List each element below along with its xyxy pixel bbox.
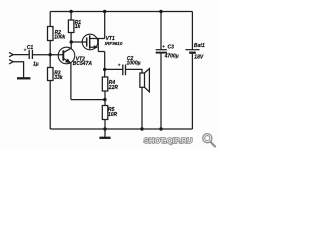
svg-text:18V: 18V: [194, 55, 204, 61]
node bottom rail C3: [159, 127, 162, 130]
wire C3 column top: [160, 12, 162, 50]
node gate R1 collector: [70, 40, 73, 43]
wire emitter feedback: [71, 99, 105, 101]
battery Bat1: [191, 12, 193, 50]
ground input: [17, 77, 30, 79]
wire gate lead: [71, 41, 87, 43]
arrow VT1 substrate: [94, 45, 98, 49]
capacitor C3: [156, 49, 167, 51]
wire input to C1: [13, 54, 29, 56]
svg-text:Bat1: Bat1: [194, 43, 205, 49]
svg-text:C1: C1: [27, 45, 34, 51]
node R4 R5 emitter: [103, 98, 106, 101]
wire R2 column top: [49, 12, 51, 27]
resistor R3: [48, 68, 54, 81]
svg-text:10R: 10R: [108, 112, 118, 118]
svg-text:SHOT.QIP.RU: SHOT.QIP.RU: [144, 136, 193, 145]
node output: [103, 68, 106, 71]
wire C3 bottom: [160, 54, 162, 130]
wire input2 to ground: [13, 62, 23, 78]
wire output node to C2: [105, 68, 123, 70]
svg-text:22R: 22R: [108, 85, 119, 91]
svg-text:1k: 1k: [75, 24, 81, 30]
svg-text:C3: C3: [168, 44, 175, 50]
wire VT1 drain to output node: [104, 52, 106, 78]
wire R1 bottom to node: [70, 33, 72, 43]
watermark shot.qip.ru: [144, 136, 193, 145]
wire R2 bottom to base node: [49, 41, 51, 68]
svg-text:4700µ: 4700µ: [164, 54, 179, 60]
resistor R5: [102, 106, 108, 120]
wire R5 bottom: [104, 120, 106, 130]
wire bottom rail: [50, 128, 192, 130]
wire speaker to bottom rail: [141, 87, 143, 129]
node top rail VT1 source: [103, 10, 106, 13]
svg-text:+: +: [162, 44, 165, 49]
svg-text:+: +: [24, 48, 27, 53]
svg-text:BC547A: BC547A: [73, 61, 93, 67]
wire R3 bottom to bottom rail: [49, 81, 51, 130]
node bottom rail speaker: [140, 127, 143, 130]
resistor R4: [102, 77, 108, 91]
input terminal 2: [9, 60, 13, 64]
node top rail C3: [159, 10, 162, 13]
input terminal 1: [9, 52, 13, 56]
wire VT2 collector up: [70, 42, 72, 48]
transistor VT2 BC547A: [58, 47, 75, 64]
arrow VT2 emitter: [65, 59, 71, 64]
wire C2 to speaker: [126, 69, 142, 73]
svg-text:+: +: [118, 63, 121, 68]
speaker BA: [140, 73, 145, 87]
resistor R2: [48, 27, 54, 41]
capacitor C2: [122, 65, 124, 76]
transistor VT1 IRF9610: [82, 34, 98, 50]
svg-text:33k: 33k: [54, 75, 63, 81]
svg-text:1000µ: 1000µ: [127, 60, 141, 66]
wire R4 to R5: [104, 91, 106, 106]
node base divider: [49, 53, 52, 56]
wire C1 to VT2 base: [32, 54, 63, 56]
node bottom rail ground: [103, 127, 106, 130]
wire top rail: [50, 11, 192, 13]
wire VT1 source to rail: [104, 12, 106, 39]
watermark magnifier icon: [203, 134, 215, 147]
resistor R1: [68, 20, 74, 33]
ground main: [104, 129, 106, 137]
svg-text:1µ: 1µ: [33, 61, 39, 67]
node top rail R1: [69, 10, 72, 13]
svg-text:100k: 100k: [54, 34, 65, 40]
wire R1 top: [70, 12, 72, 21]
svg-text:IRF9610: IRF9610: [105, 41, 123, 46]
capacitor C1: [28, 50, 30, 59]
